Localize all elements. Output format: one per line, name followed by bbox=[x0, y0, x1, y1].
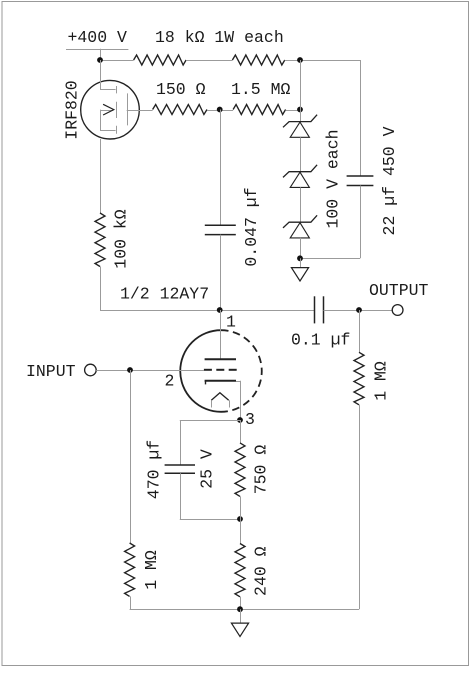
svg-text:1.5 MΩ: 1.5 MΩ bbox=[231, 80, 291, 99]
svg-text:470 µf: 470 µf bbox=[144, 440, 163, 499]
svg-text:0.1 µf: 0.1 µf bbox=[291, 331, 350, 350]
svg-text:100 kΩ: 100 kΩ bbox=[112, 209, 131, 269]
svg-text:100 V each: 100 V each bbox=[324, 129, 343, 228]
svg-text:3: 3 bbox=[245, 410, 255, 429]
svg-text:1 MΩ: 1 MΩ bbox=[142, 550, 161, 590]
svg-text:18 kΩ 1W each: 18 kΩ 1W each bbox=[155, 28, 284, 47]
svg-text:22 µf 450 V: 22 µf 450 V bbox=[380, 126, 399, 235]
svg-text:240 Ω: 240 Ω bbox=[252, 546, 271, 596]
svg-text:2: 2 bbox=[165, 372, 175, 391]
svg-text:150 Ω: 150 Ω bbox=[156, 80, 206, 99]
svg-text:OUTPUT: OUTPUT bbox=[369, 281, 429, 300]
svg-text:25 V: 25 V bbox=[198, 449, 217, 489]
svg-text:750 Ω: 750 Ω bbox=[252, 445, 271, 495]
svg-text:1: 1 bbox=[226, 313, 236, 332]
svg-text:IRF820: IRF820 bbox=[62, 80, 81, 139]
svg-text:1/2 12AY7: 1/2 12AY7 bbox=[120, 285, 209, 304]
svg-text:INPUT: INPUT bbox=[26, 362, 76, 381]
svg-text:+400 V: +400 V bbox=[68, 28, 128, 47]
svg-text:1 MΩ: 1 MΩ bbox=[372, 361, 391, 401]
svg-text:0.047 µf: 0.047 µf bbox=[242, 187, 261, 266]
